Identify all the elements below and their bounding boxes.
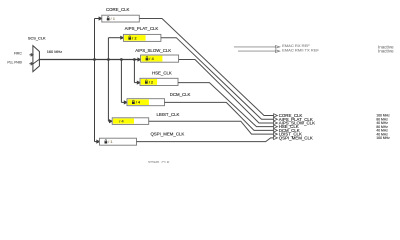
svg-text:SCS_CLK: SCS_CLK [28, 35, 46, 40]
svg-text:/ 4: / 4 [136, 100, 141, 105]
svg-text:FIRC: FIRC [14, 52, 22, 56]
svg-text:/ 2: / 2 [132, 35, 137, 40]
svg-text:STM0_CLK: STM0_CLK [148, 160, 170, 163]
svg-text:QSPI_MEM_CLK: QSPI_MEM_CLK [151, 132, 185, 137]
svg-text:AIPS_PLAT_CLK: AIPS_PLAT_CLK [125, 26, 159, 31]
svg-text:/ 1: / 1 [111, 16, 116, 21]
svg-text:Inactive: Inactive [378, 48, 394, 53]
svg-text:/ 1: / 1 [108, 139, 113, 144]
svg-text:AIPS_SLOW_CLK: AIPS_SLOW_CLK [135, 48, 171, 53]
svg-text:EMAC RMII TX REF: EMAC RMII TX REF [282, 47, 319, 52]
svg-text:QSPI_MEM_CLK: QSPI_MEM_CLK [279, 135, 313, 140]
svg-text:CORE_CLK: CORE_CLK [106, 7, 130, 12]
svg-text:LBIST_CLK: LBIST_CLK [157, 112, 180, 117]
svg-text:HSE_CLK: HSE_CLK [152, 71, 172, 76]
svg-text:/ 4: / 4 [149, 56, 154, 61]
svg-text:160 MHz: 160 MHz [376, 136, 390, 140]
svg-text:/ 4: / 4 [119, 119, 124, 124]
svg-text:DCM_CLK: DCM_CLK [170, 92, 191, 97]
svg-text:/ 2: / 2 [149, 79, 154, 84]
svg-text:PLL PHI0: PLL PHI0 [7, 60, 22, 64]
svg-text:160 MHz: 160 MHz [47, 49, 63, 54]
